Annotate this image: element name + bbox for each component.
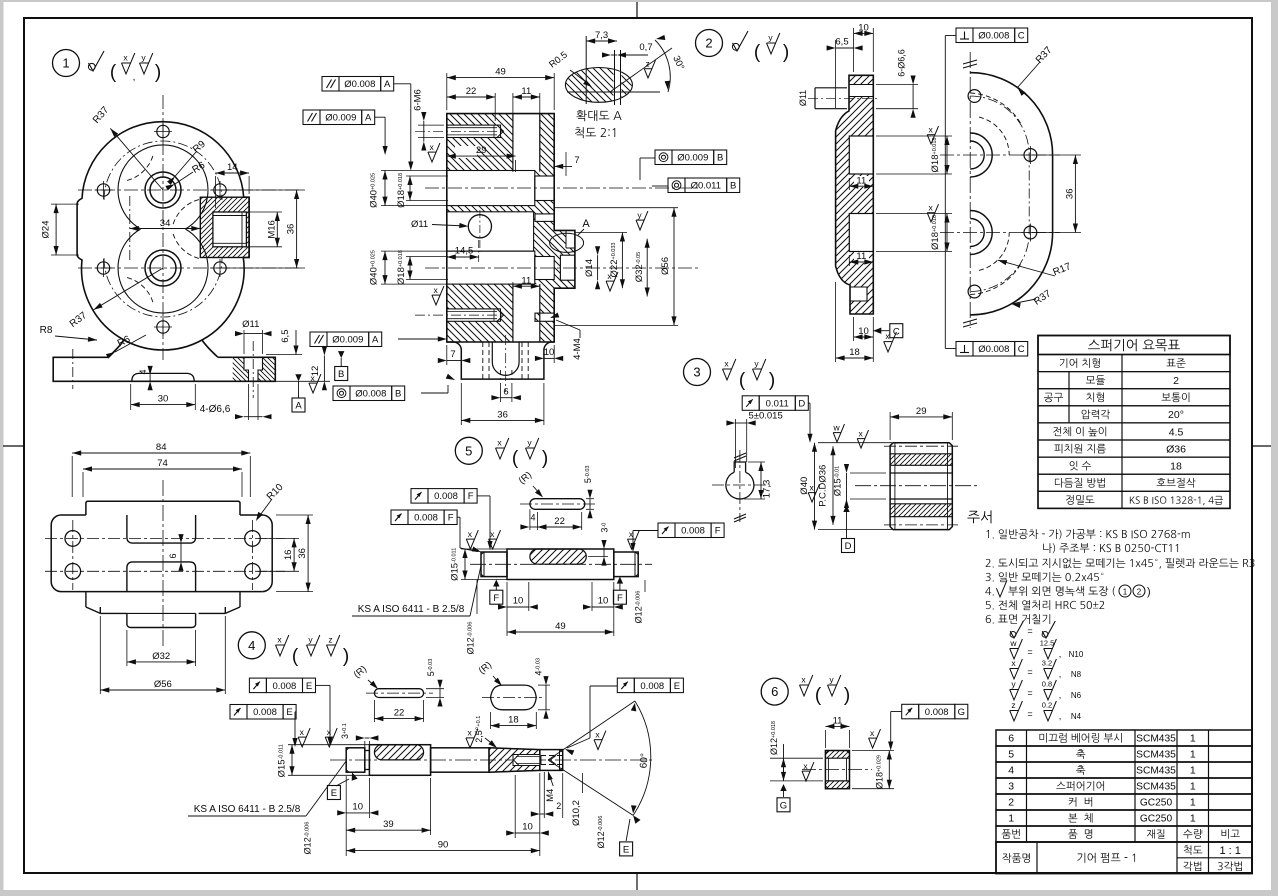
svg-text:): ) (783, 42, 789, 63)
svg-text:3: 3 (693, 365, 700, 380)
svg-text:1: 1 (1190, 733, 1196, 745)
svg-text:5±0.015: 5±0.015 (748, 411, 782, 422)
fcf left mid (398, 338, 440, 340)
dim phi24 (51, 203, 79, 205)
svg-text:KS A ISO 6411 - B 2.5/8: KS A ISO 6411 - B 2.5/8 (358, 604, 465, 615)
svg-text:x: x (467, 728, 472, 738)
svg-text:0.008: 0.008 (925, 707, 949, 718)
dim 11 lower (513, 285, 540, 287)
svg-text:Ø0.008: Ø0.008 (978, 31, 1009, 42)
svg-text:Ø0.008: Ø0.008 (978, 344, 1009, 355)
svg-text:Ø0.009: Ø0.009 (677, 153, 708, 164)
detail A dims (586, 40, 617, 42)
svg-text:2: 2 (1137, 588, 1142, 597)
svg-text:49: 49 (555, 621, 566, 632)
bolt holes (157, 125, 169, 137)
svg-text:14: 14 (227, 162, 238, 173)
plate lower steps (85, 592, 87, 607)
bores upper (150, 177, 176, 203)
svg-text:): ) (155, 62, 161, 83)
svg-text:36: 36 (286, 224, 297, 235)
svg-text:x: x (870, 728, 875, 738)
detail A magnified view (565, 68, 632, 103)
svg-text:x: x (468, 529, 473, 539)
svg-text:1: 1 (62, 56, 69, 71)
svg-text:E: E (306, 681, 312, 692)
cover half view centerline (969, 52, 971, 328)
shaft5 centerline (470, 563, 652, 565)
cover top hole stub (815, 87, 847, 89)
svg-text:6: 6 (1008, 733, 1014, 745)
svg-text:0.008: 0.008 (681, 526, 705, 537)
bushing body (825, 751, 849, 759)
R37 leader bottom (1011, 299, 1036, 304)
bottom lobe arc (124, 340, 202, 350)
svg-text:1: 1 (1190, 781, 1196, 793)
section internal lines (447, 125, 501, 137)
svg-text:0.008: 0.008 (253, 707, 277, 718)
R37 leader top (1018, 62, 1041, 88)
gear keyway profile view (734, 462, 745, 472)
gear section (890, 454, 952, 466)
svg-text:90: 90 (438, 840, 449, 851)
svg-text:x: x (858, 429, 863, 439)
svg-text:x: x (310, 373, 315, 383)
section center lines (425, 187, 700, 189)
svg-text:x: x (928, 203, 933, 213)
view 4 label (238, 632, 265, 659)
half view hidden arcs (970, 93, 1021, 124)
centering mark top (636, 2, 638, 18)
body section outline (447, 114, 575, 342)
svg-text:Ø36: Ø36 (1166, 443, 1186, 455)
svg-text:36: 36 (297, 548, 308, 559)
keyway dims top (373, 700, 375, 722)
surface checks section (636, 211, 648, 230)
plate right ear (240, 515, 272, 592)
svg-text:11: 11 (856, 175, 866, 186)
svg-text:1: 1 (1008, 813, 1014, 825)
svg-text:Ø0.009: Ø0.009 (325, 113, 356, 124)
svg-text:30: 30 (158, 394, 169, 405)
shaft4 keyway2 hatch (489, 748, 540, 772)
bottom dims section (447, 360, 462, 362)
cover dims top (835, 40, 837, 108)
svg-text:SCM435: SCM435 (1136, 782, 1176, 793)
svg-text:22: 22 (554, 516, 565, 527)
svg-text:x: x (928, 125, 933, 135)
svg-text:,: , (133, 72, 136, 83)
svg-text:SCM435: SCM435 (1136, 750, 1176, 761)
R6 leader base (115, 335, 146, 352)
shaft4 M4 hole dashed (541, 755, 563, 757)
svg-text:14,5: 14,5 (455, 246, 474, 257)
svg-text:B: B (338, 369, 344, 380)
svg-text:F: F (715, 526, 721, 537)
centering mark left (3, 445, 24, 447)
plate center lines (162, 480, 164, 648)
svg-text:11: 11 (856, 251, 866, 262)
svg-text:(: ( (110, 62, 117, 83)
base left hole centerline (72, 349, 74, 389)
svg-text:): ) (343, 646, 349, 667)
svg-text:Ø56: Ø56 (660, 257, 671, 275)
svg-text:6-Ø6,6: 6-Ø6,6 (897, 49, 907, 77)
svg-text:Ø14: Ø14 (584, 259, 595, 277)
svg-text:Ø0.008: Ø0.008 (355, 389, 386, 400)
svg-text:11: 11 (521, 275, 531, 286)
fcf frames view5 (411, 489, 428, 504)
dim 36 right (226, 189, 302, 191)
dim 22 and 11 top (494, 93, 496, 121)
svg-text:B: B (717, 153, 723, 164)
svg-text:C: C (893, 326, 900, 337)
datum frames C (956, 28, 973, 43)
svg-text:Ø24: Ø24 (41, 221, 52, 239)
datum C flag (873, 328, 881, 334)
dim 4 step (149, 375, 151, 381)
notes 주서 (967, 510, 991, 523)
svg-text:GC250: GC250 (1140, 814, 1173, 825)
svg-text:D: D (798, 398, 805, 409)
svg-text:1: 1 (1190, 765, 1196, 777)
svg-text:7: 7 (450, 349, 455, 360)
base step (132, 373, 194, 381)
hidden chamber arcs (127, 154, 153, 180)
half view bolt holes (1024, 149, 1037, 162)
svg-text:0,7: 0,7 (639, 42, 652, 53)
surface checks view4 (298, 728, 310, 747)
svg-text:Ø10,2: Ø10,2 (571, 800, 582, 826)
dim 84 (71, 456, 73, 497)
datum E flag left (352, 772, 358, 781)
shaft5 body (507, 549, 614, 580)
svg-text:22: 22 (394, 708, 405, 719)
svg-text:x: x (809, 483, 814, 493)
svg-text:=: = (1027, 626, 1032, 636)
svg-text:GC250: GC250 (1140, 798, 1173, 809)
svg-text:7,3: 7,3 (595, 30, 608, 41)
svg-text:F: F (493, 593, 499, 604)
svg-text:3.2: 3.2 (1042, 659, 1052, 668)
svg-text:0.008: 0.008 (273, 681, 297, 692)
svg-text:39: 39 (383, 819, 394, 830)
fcf 0.008 B view1 (333, 386, 350, 401)
dim 34 (130, 228, 201, 230)
keyway1 top view (374, 689, 423, 698)
svg-text:): ) (769, 370, 775, 391)
svg-text:10: 10 (544, 347, 555, 358)
svg-text:10: 10 (598, 596, 609, 607)
shaft4 centerline (330, 759, 652, 761)
svg-text:z: z (645, 59, 649, 69)
R37 leader lower (94, 268, 163, 310)
view 2 label (696, 30, 723, 57)
svg-text:M16: M16 (266, 220, 277, 238)
svg-text:16: 16 (283, 550, 294, 561)
svg-text:SCM435: SCM435 (1136, 734, 1176, 745)
svg-text:KS A ISO 6411 - B 2.5/8: KS A ISO 6411 - B 2.5/8 (194, 804, 301, 815)
svg-text:=: = (1027, 709, 1032, 719)
svg-text:Ø11: Ø11 (798, 90, 808, 106)
svg-text:18: 18 (849, 347, 860, 358)
svg-text:2: 2 (556, 801, 561, 811)
body section hatched area (447, 114, 575, 342)
svg-text:N4: N4 (1071, 712, 1082, 721)
svg-text:B: B (730, 181, 736, 192)
svg-text:=: = (1027, 647, 1032, 657)
svg-text:G: G (780, 800, 787, 811)
shaft5 keyway top view (530, 499, 585, 510)
base of body (53, 357, 275, 381)
svg-text:(: ( (512, 448, 519, 469)
plate left ear (51, 515, 262, 592)
svg-text:z: z (328, 635, 332, 645)
dim 14 (216, 172, 250, 174)
fcf 0.008 B leader (421, 392, 448, 394)
svg-text:,: , (1059, 711, 1062, 721)
svg-text:6-M6: 6-M6 (413, 89, 424, 111)
svg-text:12.5: 12.5 (1040, 639, 1055, 648)
dim 49 (446, 73, 448, 110)
M16 thread lines (213, 215, 247, 217)
svg-text:w: w (1009, 638, 1017, 648)
svg-text:(: ( (739, 370, 746, 391)
parts list table (996, 730, 1252, 746)
svg-text:A: A (384, 79, 391, 90)
svg-text:=: = (1027, 688, 1032, 698)
svg-text:4-M4: 4-M4 (572, 338, 583, 360)
svg-text:E: E (623, 845, 629, 856)
svg-text:F: F (448, 513, 454, 524)
cover outline (836, 75, 874, 314)
svg-text:C: C (1018, 31, 1025, 42)
svg-text:7: 7 (574, 155, 579, 166)
cover bore notches (849, 136, 873, 174)
datum G flag (780, 784, 786, 791)
svg-text:,: , (1059, 649, 1062, 659)
view 1 finish symbols (89, 51, 105, 71)
shaft4 segments (346, 748, 365, 772)
shaft5 chamfers (481, 552, 484, 555)
phi11 cross hole circle (468, 215, 491, 238)
svg-text:10: 10 (858, 23, 869, 34)
svg-text:(: ( (815, 685, 822, 706)
svg-text:34: 34 (160, 218, 171, 229)
svg-text:4: 4 (138, 369, 148, 374)
svg-text:A: A (582, 218, 590, 230)
svg-text:4: 4 (248, 638, 255, 653)
svg-text:4: 4 (1008, 765, 1014, 777)
R37 leader upper (110, 128, 163, 190)
svg-text:0.008: 0.008 (640, 681, 664, 692)
dim 29 (455, 146, 477, 158)
svg-text:Ø11: Ø11 (242, 319, 259, 330)
dim 30 (130, 384, 132, 410)
svg-text:60°: 60° (638, 753, 650, 769)
suction channel lines (512, 114, 514, 171)
foot center drill slot (492, 342, 519, 375)
dim 7 right top (554, 165, 572, 167)
svg-text:z: z (1011, 700, 1015, 710)
svg-text:Ø0.008: Ø0.008 (344, 79, 375, 90)
svg-text:x: x (433, 285, 438, 295)
gear fcf (742, 396, 759, 411)
plate ear inner edges and waist (127, 515, 196, 543)
fcf top boxes (322, 77, 339, 92)
half view bolt circle (970, 96, 1029, 292)
svg-text:Ø0.009: Ø0.009 (332, 335, 363, 346)
svg-text:18: 18 (508, 715, 519, 726)
dim 14,5 (447, 256, 479, 258)
svg-text:74: 74 (157, 458, 168, 469)
svg-text:6: 6 (771, 684, 778, 699)
svg-text:=: = (1027, 667, 1032, 677)
title block (996, 842, 1252, 874)
plate block top (86, 501, 240, 515)
svg-text:A: A (365, 113, 372, 124)
half view center hlines (940, 154, 1060, 156)
plate hole centerlines (45, 537, 285, 539)
svg-text:SCM435: SCM435 (1136, 766, 1176, 777)
bolt circle arcs (104, 141, 222, 200)
M6 thread details (447, 127, 497, 129)
svg-text:0.011: 0.011 (766, 398, 789, 409)
svg-text:N6: N6 (1071, 691, 1082, 700)
svg-text:(: ( (292, 646, 299, 667)
svg-text:B: B (395, 389, 401, 400)
svg-text:0.2: 0.2 (1042, 701, 1052, 710)
surface checks view5 (466, 530, 478, 549)
svg-text:2: 2 (1173, 375, 1179, 387)
center lines view1 (162, 95, 164, 360)
svg-text:): ) (1147, 586, 1151, 598)
60 degree center hole dim (548, 701, 635, 760)
roughness legend (1010, 621, 1023, 638)
svg-text:,: , (1059, 690, 1062, 700)
svg-text:x: x (429, 142, 434, 152)
bushing centerline (802, 769, 872, 771)
cover bottom dims (872, 317, 874, 362)
view 1 label (53, 50, 80, 77)
cover section hatched (836, 75, 874, 314)
svg-text:N10: N10 (1069, 650, 1084, 659)
svg-text:(: ( (754, 42, 761, 63)
dim 29 gear (889, 412, 891, 440)
datum A flag view1 (295, 374, 301, 381)
svg-text:29: 29 (476, 145, 487, 156)
svg-text:1: 1 (1123, 588, 1128, 597)
svg-text:6: 6 (168, 553, 178, 558)
svg-text:84: 84 (156, 442, 167, 453)
svg-text:A: A (372, 335, 379, 346)
datum F flags (493, 580, 499, 587)
svg-text:1: 1 (1190, 749, 1196, 761)
svg-text:11: 11 (833, 715, 843, 726)
plate holes (65, 531, 81, 547)
svg-text:w: w (833, 423, 841, 433)
base section boss hatched (233, 357, 249, 381)
svg-text:F: F (468, 491, 474, 502)
svg-text:4.5: 4.5 (1169, 426, 1184, 438)
svg-text:0.008: 0.008 (434, 491, 458, 502)
svg-text:Ø32: Ø32 (152, 651, 170, 662)
dim 74 (82, 472, 84, 497)
foot bolt hole dashed lines (482, 342, 484, 379)
svg-text:E: E (674, 681, 680, 692)
svg-text:R8: R8 (40, 325, 53, 336)
svg-text:Ø40: Ø40 (799, 477, 810, 495)
svg-text:): ) (844, 685, 850, 706)
body outline view1 (77, 122, 249, 358)
dims 10 10 49 (506, 582, 508, 636)
foot outline section (447, 342, 554, 379)
svg-text:Ø56: Ø56 (154, 679, 172, 690)
raised face land contour (118, 145, 208, 229)
svg-text:29: 29 (916, 406, 927, 417)
bores lower (150, 255, 176, 281)
fcf 0.009 A left-bottom (310, 332, 327, 347)
gear surface checks (833, 424, 844, 442)
svg-text:1: 1 (1190, 813, 1196, 825)
svg-text:Ø0.011: Ø0.011 (691, 181, 721, 192)
svg-text:36: 36 (497, 409, 508, 420)
base hole centerline (252, 341, 254, 398)
gear pitch lines (884, 445, 958, 447)
svg-text:22: 22 (466, 86, 477, 97)
spur gear spec table 스퍼기어 요목표 (1038, 336, 1230, 355)
svg-text:6: 6 (503, 387, 508, 398)
bushing dims (825, 725, 849, 727)
view 5 label (455, 437, 482, 464)
svg-text:11: 11 (521, 86, 531, 97)
fcf right boxes (655, 150, 672, 165)
svg-text:D: D (845, 541, 852, 552)
svg-text:18: 18 (1170, 461, 1182, 473)
svg-text:10: 10 (352, 802, 363, 813)
svg-text:C: C (1018, 344, 1025, 355)
svg-text:4: 4 (530, 513, 535, 523)
R6 leader (175, 172, 193, 184)
datum D flag (843, 505, 849, 512)
datum B flag view1 (338, 351, 344, 358)
svg-text:2: 2 (705, 36, 712, 51)
svg-text:5: 5 (465, 443, 472, 458)
R8 leader (55, 336, 97, 340)
fcf frames view4 (249, 678, 266, 693)
shaft4 chamfers (346, 748, 349, 750)
R9 leader (175, 152, 196, 177)
view 6 label (761, 678, 788, 705)
svg-text:M4: M4 (545, 789, 556, 802)
dim M16 (246, 211, 282, 213)
svg-text:E: E (286, 707, 292, 718)
dims keyway5 (529, 509, 531, 530)
right boss bore lines (560, 255, 575, 280)
centering mark bottom (636, 873, 638, 890)
keyway2 top view (491, 685, 537, 710)
shaft5 keyway slot (530, 549, 586, 564)
svg-text:49: 49 (495, 67, 506, 78)
fcf view6 (902, 704, 919, 719)
svg-text:F: F (617, 593, 623, 604)
svg-text:Ø11: Ø11 (411, 219, 428, 230)
svg-text:36: 36 (1064, 189, 1075, 200)
svg-text:): ) (542, 448, 548, 469)
svg-text:20°: 20° (1168, 409, 1184, 421)
svg-text:4-Ø6,6: 4-Ø6,6 (200, 404, 231, 415)
half view center ticks (963, 60, 977, 64)
